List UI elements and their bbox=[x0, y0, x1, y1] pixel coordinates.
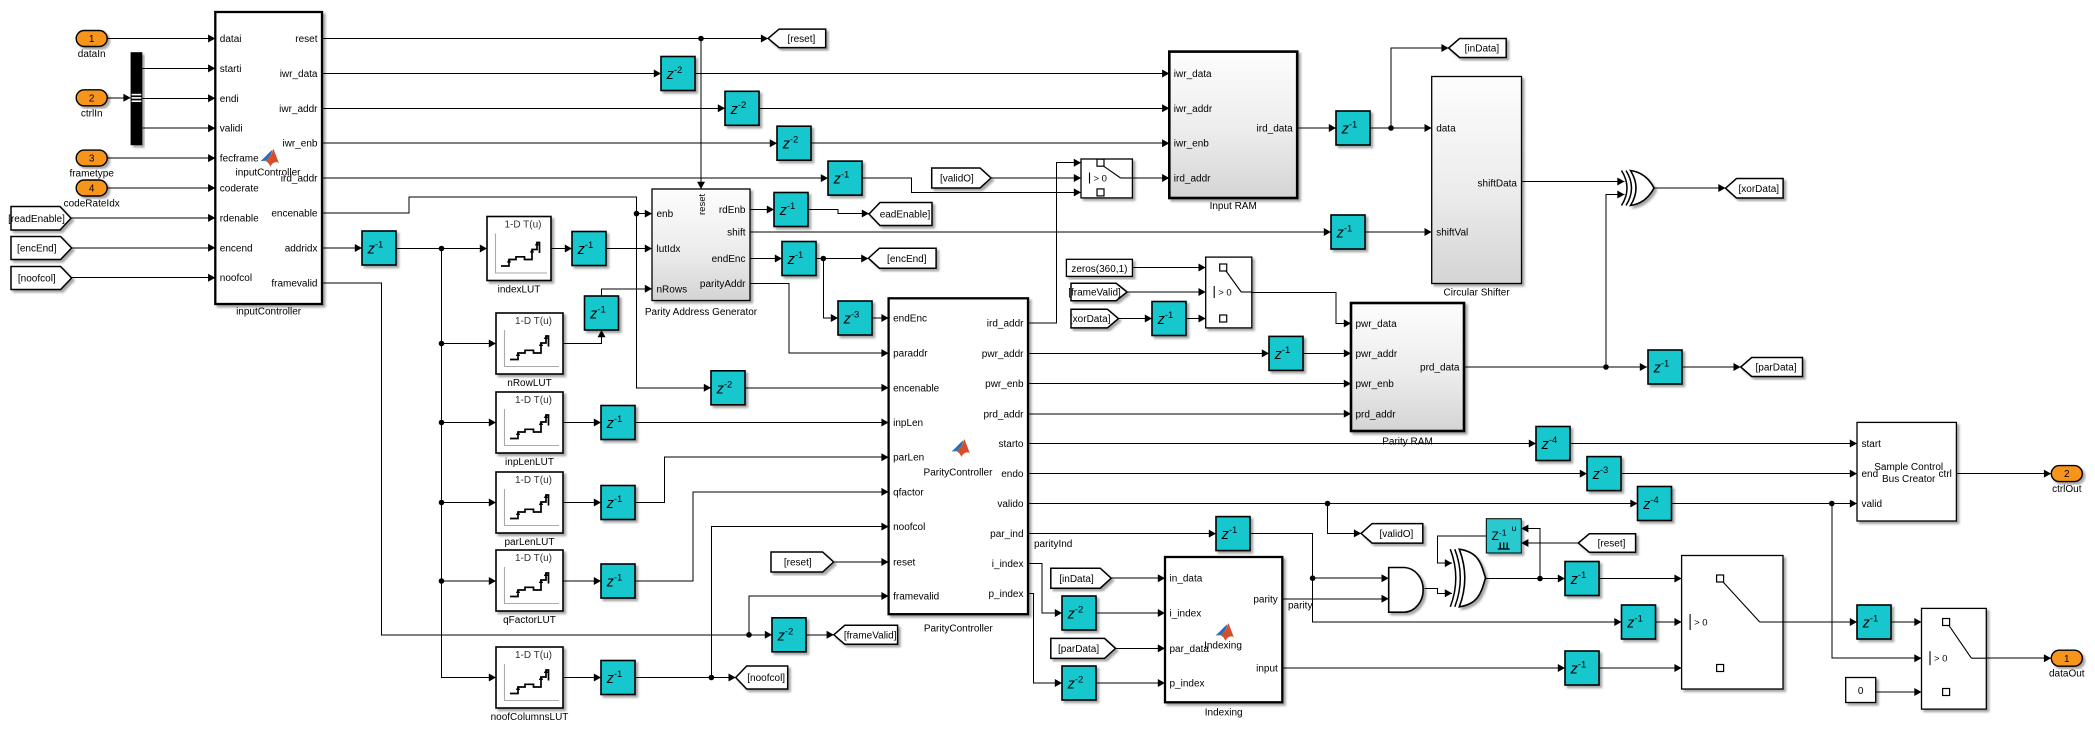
svg-text:> 0: > 0 bbox=[1094, 174, 1107, 185]
svg-text:reset: reset bbox=[697, 194, 708, 215]
svg-text:u: u bbox=[1512, 523, 1517, 533]
svg-text:framevalid: framevalid bbox=[271, 278, 317, 289]
svg-text:zeros(360,1): zeros(360,1) bbox=[1071, 264, 1127, 275]
svg-text:[parData]: [parData] bbox=[1058, 644, 1099, 655]
svg-text:prd_addr: prd_addr bbox=[983, 409, 1024, 420]
svg-text:parLen: parLen bbox=[893, 453, 924, 464]
svg-text:[inData]: [inData] bbox=[1465, 44, 1500, 55]
svg-text:endEnc: endEnc bbox=[712, 254, 746, 265]
svg-text:[xorData]: [xorData] bbox=[1739, 184, 1780, 195]
svg-text:p_index: p_index bbox=[988, 589, 1023, 600]
svg-text:parity: parity bbox=[1288, 601, 1312, 612]
svg-text:encenable: encenable bbox=[893, 383, 940, 394]
svg-text:noofcol: noofcol bbox=[220, 273, 252, 284]
svg-text:nRowLUT: nRowLUT bbox=[507, 378, 551, 389]
svg-text:fecframe: fecframe bbox=[220, 154, 259, 165]
svg-text:[validO]: [validO] bbox=[1379, 529, 1413, 540]
svg-text:paraddr: paraddr bbox=[893, 349, 928, 360]
svg-text:parityInd: parityInd bbox=[1034, 539, 1072, 550]
svg-text:[noofcol]: [noofcol] bbox=[18, 274, 56, 285]
svg-text:coderate: coderate bbox=[220, 184, 259, 195]
svg-text:1-D T(u): 1-D T(u) bbox=[504, 220, 541, 231]
svg-text:parity: parity bbox=[1253, 594, 1277, 605]
svg-text:1-D T(u): 1-D T(u) bbox=[515, 650, 552, 661]
svg-text:[reset]: [reset] bbox=[1598, 539, 1626, 550]
svg-text:1-D T(u): 1-D T(u) bbox=[515, 475, 552, 486]
svg-text:datai: datai bbox=[220, 34, 242, 45]
svg-text:Indexing: Indexing bbox=[1204, 641, 1242, 652]
svg-text:addridx: addridx bbox=[285, 244, 318, 255]
svg-text:endi: endi bbox=[220, 94, 239, 105]
svg-text:inpLenLUT: inpLenLUT bbox=[505, 457, 554, 468]
svg-text:rdenable: rdenable bbox=[220, 213, 259, 224]
svg-text:[encEnd]: [encEnd] bbox=[887, 254, 927, 265]
svg-text:1: 1 bbox=[2064, 654, 2070, 665]
svg-text:endo: endo bbox=[1001, 469, 1024, 480]
svg-text:ctrlIn: ctrlIn bbox=[81, 108, 103, 119]
svg-text:reset: reset bbox=[893, 558, 915, 569]
svg-text:noofcol: noofcol bbox=[893, 522, 925, 533]
svg-text:par_ind: par_ind bbox=[990, 529, 1023, 540]
svg-text:ird_addr: ird_addr bbox=[281, 174, 318, 185]
svg-text:2: 2 bbox=[89, 93, 95, 104]
svg-text:Sample Control: Sample Control bbox=[1874, 462, 1943, 473]
svg-text:[readEnable]: [readEnable] bbox=[8, 214, 65, 225]
svg-text:Parity Address Generator: Parity Address Generator bbox=[645, 307, 758, 318]
svg-text:shiftVal: shiftVal bbox=[1436, 228, 1468, 239]
svg-text:eadEnable]: eadEnable] bbox=[880, 210, 931, 221]
svg-text:1: 1 bbox=[89, 34, 95, 45]
svg-text:iwr_data: iwr_data bbox=[280, 69, 318, 80]
svg-text:> 0: > 0 bbox=[1218, 288, 1231, 299]
svg-text:reset: reset bbox=[295, 34, 317, 45]
svg-text:[reset]: [reset] bbox=[784, 558, 812, 569]
svg-text:prd_data: prd_data bbox=[1420, 363, 1460, 374]
svg-text:rdEnb: rdEnb bbox=[719, 205, 746, 216]
svg-text:pwr_enb: pwr_enb bbox=[985, 379, 1024, 390]
svg-text:codeRateIdx: codeRateIdx bbox=[64, 199, 120, 210]
svg-text:iwr_enb: iwr_enb bbox=[282, 139, 317, 150]
svg-text:validi: validi bbox=[220, 124, 243, 135]
svg-text:starto: starto bbox=[998, 439, 1023, 450]
svg-text:> 0: > 0 bbox=[1934, 654, 1947, 665]
svg-text:starti: starti bbox=[220, 64, 242, 75]
svg-text:qfactor: qfactor bbox=[893, 487, 924, 498]
svg-text:shiftData: shiftData bbox=[1478, 179, 1518, 190]
svg-text:[inData]: [inData] bbox=[1059, 574, 1094, 585]
svg-text:noofColumnsLUT: noofColumnsLUT bbox=[491, 712, 569, 723]
svg-text:Input RAM: Input RAM bbox=[1210, 201, 1257, 212]
svg-text:ParityController: ParityController bbox=[924, 624, 994, 635]
svg-text:[reset]: [reset] bbox=[788, 34, 816, 45]
svg-text:data: data bbox=[1436, 124, 1456, 135]
svg-text:nRows: nRows bbox=[657, 284, 688, 295]
svg-text:endEnc: endEnc bbox=[893, 314, 927, 325]
svg-text:[validO]: [validO] bbox=[940, 174, 974, 185]
svg-text:[parData]: [parData] bbox=[1756, 363, 1797, 374]
svg-text:pwr_enb: pwr_enb bbox=[1356, 379, 1395, 390]
svg-text:input: input bbox=[1256, 664, 1278, 675]
svg-text:valid: valid bbox=[1862, 499, 1883, 510]
svg-text:ird_addr: ird_addr bbox=[987, 319, 1024, 330]
svg-text:3: 3 bbox=[89, 154, 95, 165]
svg-text:start: start bbox=[1862, 439, 1882, 450]
svg-text:pwr_data: pwr_data bbox=[1356, 319, 1398, 330]
svg-text:ird_data: ird_data bbox=[1257, 124, 1294, 135]
svg-text:indexLUT: indexLUT bbox=[498, 285, 541, 296]
svg-text:1-D T(u): 1-D T(u) bbox=[515, 553, 552, 564]
svg-text:enb: enb bbox=[657, 209, 674, 220]
svg-text:in_data: in_data bbox=[1170, 574, 1203, 585]
svg-text:[noofcol]: [noofcol] bbox=[747, 673, 785, 684]
svg-text:inputController: inputController bbox=[236, 307, 302, 318]
svg-text:i_index: i_index bbox=[1170, 609, 1202, 620]
svg-text:1-D T(u): 1-D T(u) bbox=[515, 316, 552, 327]
svg-text:ParityController: ParityController bbox=[924, 468, 994, 479]
svg-text:par_data: par_data bbox=[1170, 644, 1210, 655]
svg-text:p_index: p_index bbox=[1170, 679, 1205, 690]
svg-text:encenable: encenable bbox=[271, 209, 318, 220]
svg-text:encend: encend bbox=[220, 243, 253, 254]
svg-text:iwr_addr: iwr_addr bbox=[279, 104, 318, 115]
svg-text:qFactorLUT: qFactorLUT bbox=[503, 615, 556, 626]
svg-text:[xorData]: [xorData] bbox=[1070, 314, 1111, 325]
svg-text:valido: valido bbox=[997, 499, 1024, 510]
svg-text:ctrlOut: ctrlOut bbox=[2052, 484, 2082, 495]
svg-text:frametype: frametype bbox=[69, 169, 114, 180]
svg-text:Indexing: Indexing bbox=[1205, 708, 1243, 719]
svg-text:0: 0 bbox=[1858, 686, 1864, 697]
svg-text:1-D T(u): 1-D T(u) bbox=[515, 395, 552, 406]
svg-text:pwr_addr: pwr_addr bbox=[1356, 349, 1398, 360]
svg-text:prd_addr: prd_addr bbox=[1356, 409, 1397, 420]
svg-text:iwr_data: iwr_data bbox=[1174, 69, 1212, 80]
svg-text:4: 4 bbox=[89, 184, 95, 195]
svg-text:parLenLUT: parLenLUT bbox=[504, 537, 554, 548]
svg-text:dataOut: dataOut bbox=[2049, 669, 2085, 680]
svg-text:i_index: i_index bbox=[992, 559, 1024, 570]
svg-text:parityAddr: parityAddr bbox=[700, 279, 746, 290]
svg-text:shift: shift bbox=[727, 228, 746, 239]
svg-text:iwr_enb: iwr_enb bbox=[1174, 139, 1209, 150]
svg-text:framevalid: framevalid bbox=[893, 592, 939, 603]
svg-text:[encEnd]: [encEnd] bbox=[17, 244, 57, 255]
svg-text:pwr_addr: pwr_addr bbox=[982, 349, 1024, 360]
svg-text:Bus Creator: Bus Creator bbox=[1882, 474, 1936, 485]
svg-text:[frameValid]: [frameValid] bbox=[844, 630, 897, 641]
svg-text:> 0: > 0 bbox=[1694, 618, 1707, 629]
svg-text:iwr_addr: iwr_addr bbox=[1174, 104, 1213, 115]
svg-text:[frameValid]: [frameValid] bbox=[1068, 288, 1121, 299]
svg-text:dataIn: dataIn bbox=[78, 49, 106, 60]
svg-text:ird_addr: ird_addr bbox=[1174, 174, 1211, 185]
svg-text:inpLen: inpLen bbox=[893, 418, 923, 429]
svg-text:2: 2 bbox=[2064, 469, 2070, 480]
svg-text:lutIdx: lutIdx bbox=[657, 244, 681, 255]
svg-text:Parity RAM: Parity RAM bbox=[1382, 437, 1433, 448]
svg-text:Circular Shifter: Circular Shifter bbox=[1444, 288, 1511, 299]
